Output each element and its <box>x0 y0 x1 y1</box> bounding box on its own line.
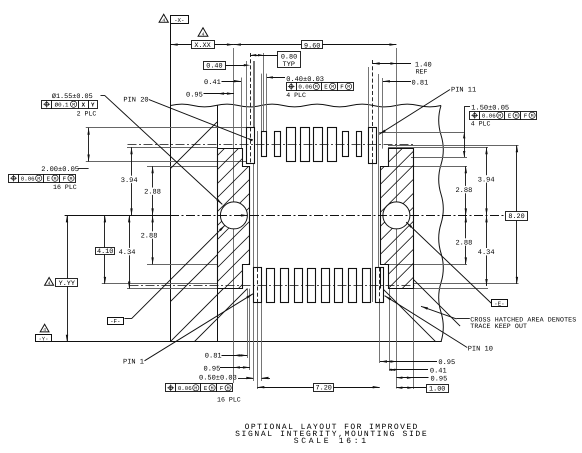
svg-text:16 PLC: 16 PLC <box>217 397 241 404</box>
svg-text:M: M <box>211 386 214 392</box>
svg-text:0.41: 0.41 <box>204 79 221 87</box>
wire: extension line notch step right (2.88 lower ref) <box>389 264 467 266</box>
pad: pin 1 (corner pad, bottom row) <box>254 268 262 303</box>
dimension 0.81 (bar edge to hole center) <box>383 81 411 83</box>
svg-text:M: M <box>531 113 534 119</box>
svg-text:REF: REF <box>416 69 428 76</box>
svg-text:X: X <box>82 101 86 108</box>
dimension 0.95 bottom right second <box>396 377 428 379</box>
svg-text:Ø1.55±0.05: Ø1.55±0.05 <box>52 93 93 101</box>
pad: pin 11 (corner pad, top row) <box>369 128 377 164</box>
dimension 0.95 bottom right (pin10 to hole center) <box>380 361 437 363</box>
svg-text:M: M <box>331 84 334 90</box>
node: pin 11 pad center line (dashed) <box>372 60 374 163</box>
svg-text:X.XX: X.XX <box>194 42 210 50</box>
wire: extension line slug bottom left (4.10 ref) <box>102 283 217 285</box>
wire: extension line bar top left (3.94 ref) <box>127 147 217 149</box>
dimension 0.40 (boxed) <box>225 65 245 67</box>
node: datum -E- label with leader <box>492 300 508 307</box>
wire: extension pin1 center through line <box>257 131 259 268</box>
region: keep-out cross hatch left band <box>170 122 217 169</box>
dimension FCF 0.06 E F 16 PLC bottom left <box>166 384 176 392</box>
dimension X.XX with note flag <box>171 44 234 46</box>
wire: extension pin20 pad right edge <box>254 61 256 128</box>
wire: extension narrow pad 1 right edge <box>266 74 268 132</box>
svg-text:0.50±0.03: 0.50±0.03 <box>199 375 237 383</box>
dimension 7.20 (boxed, pin1 to pin10 center) <box>257 387 379 389</box>
svg-text:9.60: 9.60 <box>304 42 320 50</box>
svg-text:M: M <box>315 84 318 90</box>
wire: extension narrow pad 1 left edge <box>261 74 263 132</box>
svg-text:-Y-: -Y- <box>38 335 48 342</box>
svg-text:PIN 10: PIN 10 <box>468 346 493 354</box>
pad: pin 20 (corner pad, top row) <box>247 128 255 164</box>
wire: extension line bar bottom right (4.34 ref) <box>413 288 488 290</box>
dimension 8.20 right (boxed) <box>516 145 518 284</box>
wire: extension pin11 pad right edge (through line) <box>378 74 380 268</box>
svg-text:4: 4 <box>48 280 51 286</box>
hole: left mounting hole dia 1.55 <box>220 202 247 229</box>
hole: right mounting hole dia 1.55 <box>383 202 410 229</box>
dimension 3.94 left <box>131 147 133 215</box>
svg-text:3.94: 3.94 <box>121 177 138 185</box>
wire: extension right bar left edge (0.81 ref) <box>382 78 384 149</box>
svg-text:0.40: 0.40 <box>206 63 222 71</box>
dimension 2.88 left lower <box>152 215 154 264</box>
node: pin 20 pad center line (dashed) <box>250 53 252 163</box>
wire: right bar left edge redrawn through pin 10 pad <box>380 268 382 289</box>
wire: extension pin1 pad right edge <box>261 302 263 381</box>
svg-text:0.06: 0.06 <box>21 175 35 182</box>
wire: pin 1 center extension down <box>257 302 259 389</box>
svg-text:0.41: 0.41 <box>430 368 447 376</box>
svg-text:M: M <box>194 386 197 392</box>
node: pin 1 pad center line (dashed) <box>257 268 259 302</box>
wire: extension line narrow pad top right (1.50 ref) <box>379 132 464 134</box>
svg-text:E: E <box>204 385 208 392</box>
svg-text:2 PLC: 2 PLC <box>77 110 97 117</box>
wire: extension right notch edge down (0.41 ref) <box>389 289 391 371</box>
svg-text:0.95: 0.95 <box>186 92 203 100</box>
svg-text:4.34: 4.34 <box>478 249 495 257</box>
svg-text:TYP: TYP <box>283 61 295 69</box>
wire: extension narrow pad 1 center (0.80 ref) <box>263 53 265 132</box>
wire: extension line bar top right (3.94 ref) <box>388 147 488 149</box>
wire: extension 0.95 ref down-left <box>249 289 251 370</box>
svg-text:-X-: -X- <box>174 17 184 24</box>
dimension 4.34 right <box>486 215 488 286</box>
wire: extension line notch step right (2.88 upper ref) <box>389 166 467 168</box>
svg-text:2.00±0.05: 2.00±0.05 <box>41 166 79 174</box>
svg-text:Ø0.1: Ø0.1 <box>55 101 69 108</box>
svg-text:SCALE 16:1: SCALE 16:1 <box>294 437 369 446</box>
wire: extension line notch step left (2.88 lower ref) <box>147 264 217 266</box>
dimension 2.88 right lower <box>465 215 467 264</box>
wire: break line (right wavy boundary of trace keep-out area) <box>439 106 444 342</box>
pad: top row pad 2 (narrow) <box>262 132 267 157</box>
svg-text:PIN 20: PIN 20 <box>123 96 148 104</box>
dimension 4.10 left (boxed) <box>104 215 106 284</box>
pad: top row pad 5 (wide) <box>301 128 310 162</box>
wire: extension pin1 pad left edge / pin20 pad right edge (through line) <box>253 61 255 381</box>
pad: bottom row pad 5 (optional layout, uniform) <box>308 269 316 303</box>
wire: keep-out boundary bottom edge / datum -Y- line <box>52 341 442 343</box>
wire: pin 10 center extension down <box>379 302 381 363</box>
pad: bottom row pad 7 (optional layout, uniform) <box>335 269 343 303</box>
wire: extension left bar right edge down (0.81 ref) <box>247 289 249 358</box>
pad: bottom row pad 2 (optional layout, uniform) <box>267 269 275 303</box>
svg-text:0.95: 0.95 <box>438 359 455 367</box>
svg-text:PIN 11: PIN 11 <box>451 87 476 95</box>
svg-text:2.88: 2.88 <box>141 233 158 241</box>
svg-text:2.88: 2.88 <box>455 187 472 195</box>
svg-text:16 PLC: 16 PLC <box>53 184 77 191</box>
svg-text:TRACE KEEP OUT: TRACE KEEP OUT <box>470 323 527 330</box>
wire: extension pin20 pad left edge <box>246 61 248 128</box>
pad: top row pad 7 (wide) <box>328 128 337 162</box>
svg-text:M: M <box>70 176 73 182</box>
pad: top row pad 6 (wide) <box>314 128 323 162</box>
dimension 2.00±0.05 with position FCF 16 PLC (pad length) <box>88 128 90 162</box>
dimension 9.60 (hole to hole) <box>234 44 397 46</box>
wire: extension notch edge (0.41 ref) <box>241 78 243 149</box>
svg-text:4: 4 <box>202 31 205 37</box>
pad: top row pad 4 (wide) <box>287 128 296 162</box>
svg-text:M: M <box>515 113 518 119</box>
wire: extension line pad top (2.00 dim upper ref) <box>86 127 246 129</box>
wire: extension right bar right edge down (1.00 ref) <box>413 289 415 389</box>
svg-text:7.20: 7.20 <box>316 385 332 393</box>
wire: extension pin11 pad left edge <box>368 67 370 128</box>
dimension 0.40±0.03 with position FCF 4 PLC <box>267 77 285 79</box>
svg-text:4 PLC: 4 PLC <box>286 92 306 99</box>
svg-text:F: F <box>220 385 224 392</box>
pad: top row pad 8 (narrow) <box>343 132 349 157</box>
svg-text:E: E <box>324 84 328 91</box>
wire: pin 11 center extension down <box>372 163 374 302</box>
dimension 1.50±0.05 with position FCF 4 PLC (narrow pad length) <box>464 107 466 158</box>
svg-text:3.94: 3.94 <box>478 176 495 184</box>
svg-text:0.06: 0.06 <box>178 385 192 392</box>
svg-text:4.10: 4.10 <box>97 248 113 256</box>
node: datum -X- flag with note triangle <box>171 16 189 24</box>
svg-text:Y: Y <box>91 101 95 108</box>
node: datum -Y- flag with note triangle <box>36 335 52 342</box>
svg-text:2.88: 2.88 <box>455 240 472 248</box>
svg-text:M: M <box>498 113 501 119</box>
svg-text:F: F <box>340 84 344 91</box>
svg-text:0.81: 0.81 <box>412 79 429 87</box>
node: bottom pad row center line (dash-dot) <box>130 285 415 287</box>
wire: extension line notch step left (2.88 upper ref) <box>147 166 217 168</box>
svg-text:4.34: 4.34 <box>119 249 136 257</box>
wire: main horizontal center line (dash-dot) <box>65 215 170 217</box>
svg-text:4: 4 <box>162 17 165 23</box>
svg-text:2.88: 2.88 <box>144 189 161 197</box>
pad: top row pad 3 (narrow) <box>275 132 281 157</box>
pad: bottom row pad 4 (optional layout, uniform) <box>295 269 303 303</box>
pad: top row pad 9 (narrow) <box>357 132 362 157</box>
wire: extension line slug bottom right (8.20 ref) <box>413 283 518 285</box>
wire: extension line pad bottom (2.00 dim lower ref) <box>86 161 246 163</box>
svg-text:M: M <box>37 176 40 182</box>
dimension 4.34 left <box>129 215 131 288</box>
svg-text:0.95: 0.95 <box>431 376 448 384</box>
svg-text:0.95: 0.95 <box>204 365 221 373</box>
wire: extension line bar bottom left (4.34 ref) <box>127 288 217 290</box>
svg-text:M: M <box>72 102 75 108</box>
pad: bottom row pad 8 (optional layout, uniform) <box>349 269 357 303</box>
svg-text:M: M <box>347 84 350 90</box>
dimension 0.41 bottom right <box>389 369 428 371</box>
dimension 1.40 REF (pin11 center to hole center) <box>373 63 411 65</box>
svg-text:-F-: -F- <box>110 318 120 325</box>
dimension 2.88 left upper <box>152 166 154 215</box>
svg-text:0.06: 0.06 <box>482 112 496 119</box>
wire: keep-out inner boundary left (left bar left edge extended) <box>217 106 219 342</box>
region: right hatched bar (mounting slug pad, datum E) <box>381 149 414 289</box>
svg-text:M: M <box>54 176 57 182</box>
dimension 0.80 TYP (pad pitch) <box>250 55 278 57</box>
wire: keep-out boundary left edge / datum -X- extension line <box>170 24 172 342</box>
node: top pad row center line (dash-dot) <box>128 144 415 146</box>
wire: extension line narrow pad bottom right (1.50 ref) <box>411 157 467 159</box>
svg-text:8.20: 8.20 <box>508 213 524 221</box>
svg-text:0.81: 0.81 <box>205 352 222 360</box>
dimension 2.88 right upper <box>465 166 467 215</box>
wire: left hole center extension line <box>233 48 235 383</box>
region: left hatched bar (mounting slug pad, datum F) <box>218 149 250 289</box>
node: datum -F- label with leader <box>108 318 124 325</box>
svg-text:F: F <box>63 175 67 182</box>
dimension 3.94 right <box>486 147 488 215</box>
pad: pin 10 (corner pad, bottom row) <box>376 268 384 303</box>
svg-text:4: 4 <box>43 327 46 333</box>
wire: right hole center extension line <box>396 48 398 389</box>
svg-text:F: F <box>524 112 528 119</box>
svg-text:4 PLC: 4 PLC <box>471 121 491 128</box>
pad: bottom row pad 9 (optional layout, uniform) <box>363 269 371 303</box>
dimension Y.YY left (boxed, with note flag) <box>67 215 69 341</box>
wire: extension line slug top right (8.20 ref) <box>388 145 519 147</box>
svg-text:-E-: -E- <box>494 301 504 308</box>
node: pin 10 pad center line (dashed) <box>379 268 381 303</box>
region: keep-out cross hatch right band <box>413 279 460 326</box>
svg-text:1.00: 1.00 <box>429 386 445 394</box>
wire: break line (top wavy boundary of trace keep-out area) <box>171 104 441 107</box>
svg-text:E: E <box>508 112 512 119</box>
svg-text:E: E <box>47 175 51 182</box>
svg-text:PIN 1: PIN 1 <box>123 358 144 366</box>
pad: bottom row pad 6 (optional layout, uniform) <box>322 269 330 303</box>
svg-text:M: M <box>227 386 230 392</box>
pad: bottom row pad 3 (optional layout, uniform) <box>281 269 289 303</box>
svg-text:0.06: 0.06 <box>298 84 312 91</box>
dimension 1.00 bottom right (boxed) <box>396 387 426 389</box>
svg-text:Y.YY: Y.YY <box>59 280 75 288</box>
